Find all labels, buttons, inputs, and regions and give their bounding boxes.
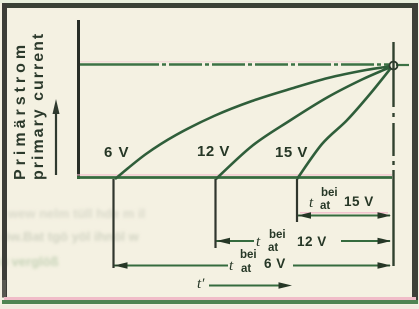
svg-text:12 V: 12 V — [297, 234, 327, 249]
y-axis — [77, 20, 80, 179]
svg-text:15 V: 15 V — [344, 194, 374, 209]
svg-text:t′: t′ — [197, 276, 205, 292]
frame border left — [2, 3, 7, 297]
dimension row t at 15V — [298, 187, 392, 219]
frame border right — [412, 3, 418, 303]
svg-text:bei: bei — [321, 187, 338, 199]
svg-text:Primärstrom: Primärstrom — [12, 41, 29, 180]
svg-text:öw.Bat tgö yöl ihnöl w: öw.Bat tgö yöl ihnöl w — [2, 229, 140, 244]
svg-text:wew nelm tüll hde m il: wew nelm tüll hde m il — [7, 206, 145, 221]
svg-text:ü verglöß: ü verglöß — [0, 254, 59, 269]
frame border top — [2, 3, 417, 8]
asymptote dash-dot line — [80, 63, 389, 65]
curve 12V — [216, 68, 390, 180]
asymptote stub right of circle — [396, 64, 409, 66]
svg-text:at: at — [320, 200, 330, 212]
x-axis — [77, 174, 392, 176]
drop line 12V — [214, 179, 216, 248]
drop line 6V — [112, 179, 114, 268]
dimension row t at 12V — [217, 229, 392, 254]
y-label up arrow — [53, 99, 60, 175]
curve 15V — [297, 69, 391, 180]
vertical dash-dot through convergence point — [392, 42, 394, 266]
drop line 15V — [296, 179, 298, 222]
svg-text:bei: bei — [240, 249, 257, 261]
t-prime arrow — [197, 276, 292, 292]
frame border bottom pink fringe — [4, 297, 416, 300]
svg-text:at: at — [268, 242, 278, 254]
svg-text:15 V: 15 V — [275, 144, 308, 161]
svg-text:at: at — [241, 263, 251, 275]
svg-text:12 V: 12 V — [197, 143, 230, 160]
frame border bottom — [2, 300, 418, 304]
svg-text:primary current: primary current — [30, 32, 47, 180]
svg-text:6 V: 6 V — [264, 256, 286, 271]
convergence point circle — [390, 62, 398, 70]
svg-text:bei: bei — [269, 229, 286, 241]
dimension row t at 6V — [114, 249, 391, 275]
bleed-through ghost text left — [0, 206, 145, 269]
curve 6V — [115, 67, 390, 180]
svg-text:6 V: 6 V — [104, 144, 130, 161]
